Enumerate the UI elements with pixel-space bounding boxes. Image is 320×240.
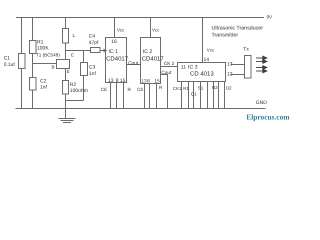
- svg-text:CD4017: CD4017: [106, 55, 129, 62]
- svg-text:T1 (BC548): T1 (BC548): [36, 52, 60, 57]
- svg-text:CK1: CK1: [173, 86, 182, 91]
- svg-text:100ohm: 100ohm: [70, 88, 88, 94]
- svg-text:Vcc: Vcc: [207, 47, 215, 52]
- svg-text:14: 14: [204, 57, 210, 63]
- svg-text:CE: CE: [137, 87, 143, 92]
- svg-text:1nf: 1nf: [40, 85, 48, 91]
- svg-text:Elprocus.com: Elprocus.com: [246, 112, 290, 121]
- svg-text:11: 11: [181, 65, 186, 71]
- svg-text:12: 12: [227, 71, 233, 77]
- svg-text:C3: C3: [89, 65, 96, 71]
- svg-text:GND: GND: [256, 100, 267, 106]
- svg-text:100K: 100K: [37, 46, 49, 52]
- svg-text:CD 4013: CD 4013: [190, 70, 214, 77]
- svg-text:R1: R1: [37, 39, 44, 45]
- svg-text:CE: CE: [101, 87, 107, 92]
- svg-text:R1: R1: [183, 86, 189, 91]
- svg-text:C2: C2: [40, 78, 47, 84]
- svg-text:E: E: [67, 69, 70, 74]
- svg-text:8: 8: [116, 78, 119, 84]
- svg-text:9V: 9V: [267, 14, 274, 19]
- svg-text:R2: R2: [70, 82, 77, 88]
- svg-text:Cout: Cout: [161, 70, 172, 75]
- svg-text:CD4017: CD4017: [142, 55, 165, 62]
- svg-text:47pf: 47pf: [89, 40, 99, 46]
- svg-text:0.1uf: 0.1uf: [4, 62, 16, 68]
- svg-text:15: 15: [154, 79, 160, 85]
- svg-text:Transmitter: Transmitter: [212, 33, 239, 39]
- svg-text:Q1: Q1: [191, 91, 197, 96]
- svg-text:C1: C1: [4, 56, 11, 62]
- svg-text:15: 15: [120, 78, 126, 84]
- svg-text:Tx: Tx: [243, 46, 249, 52]
- svg-text:8: 8: [147, 79, 150, 85]
- svg-text:16: 16: [111, 39, 117, 45]
- svg-text:IC 3: IC 3: [188, 64, 198, 70]
- svg-text:13: 13: [108, 78, 114, 84]
- svg-text:Cout: Cout: [128, 60, 139, 65]
- svg-text:L: L: [73, 33, 76, 39]
- svg-text:IC 1: IC 1: [109, 49, 119, 55]
- svg-text:IC 2: IC 2: [143, 49, 153, 55]
- svg-text:D2: D2: [226, 85, 232, 90]
- svg-text:CK 2: CK 2: [164, 61, 175, 66]
- svg-text:S1: S1: [198, 85, 204, 90]
- svg-text:Vcc: Vcc: [117, 27, 125, 32]
- svg-text:C4: C4: [89, 34, 96, 40]
- svg-text:13: 13: [227, 61, 233, 67]
- svg-text:B: B: [52, 65, 55, 70]
- svg-text:Ultrasonic Transducer: Ultrasonic Transducer: [212, 25, 264, 31]
- svg-text:1nf: 1nf: [89, 71, 97, 77]
- svg-text:R2: R2: [212, 85, 218, 90]
- svg-text:Vcc: Vcc: [152, 28, 160, 33]
